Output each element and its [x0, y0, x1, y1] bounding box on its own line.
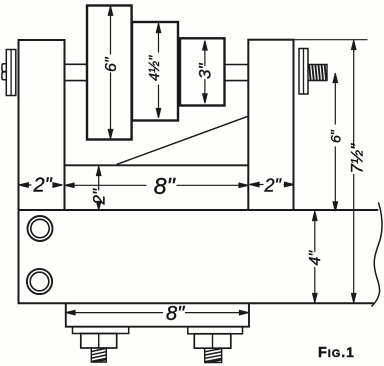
left upright	[19, 40, 65, 210]
dimension 6in disc vertical	[108, 6, 112, 138]
svg-text:2": 2"	[90, 188, 109, 205]
dimension right 6in vertical	[333, 74, 337, 211]
dimension 4.5in disc vertical	[156, 24, 160, 118]
nut N1	[81, 334, 117, 349]
left shaft stub	[65, 63, 88, 65]
svg-text:8": 8"	[166, 303, 185, 325]
svg-text:2": 2"	[33, 175, 53, 197]
svg-text:6": 6"	[327, 129, 343, 143]
dimension 3in disc vertical	[203, 41, 207, 103]
nut N2 facet line	[212, 334, 214, 348]
step disc 4.5in	[132, 22, 178, 121]
svg-text:2": 2"	[264, 176, 283, 196]
stud S2	[205, 348, 222, 362]
clamp screw thread	[308, 65, 327, 81]
nut N2	[194, 334, 231, 348]
washer W2	[188, 327, 243, 334]
base break line (wavy right edge)	[372, 203, 382, 306]
base plate	[19, 210, 378, 303]
dimension middle 8in	[65, 183, 248, 187]
right shaft stub	[225, 64, 249, 66]
bottom clamp plate	[66, 303, 249, 326]
svg-text:8": 8"	[154, 173, 177, 199]
right washer plate inner line	[303, 49, 305, 95]
nut N1 facet line	[98, 334, 100, 349]
top extension line	[294, 39, 368, 41]
svg-text:4": 4"	[307, 250, 324, 266]
hole H1	[28, 216, 53, 241]
thumb nut bumps	[2, 64, 6, 80]
dimension right 2in	[250, 182, 294, 186]
svg-text:6": 6"	[103, 56, 120, 72]
svg-text:3": 3"	[196, 63, 215, 79]
dimension 7.5in vertical	[352, 41, 356, 303]
hole H2	[27, 269, 52, 294]
dimension bed 2in vertical	[97, 167, 101, 210]
step disc 6in	[87, 6, 132, 140]
right washer plate	[299, 49, 308, 95]
diagonal brace	[117, 116, 248, 164]
dimension bottom 8in	[66, 310, 249, 314]
left clamp plate	[6, 50, 16, 96]
left clamp plate inner line	[10, 50, 12, 96]
step disc 3in	[180, 38, 225, 105]
washer W1	[73, 327, 129, 334]
dimension 4in vertical	[313, 212, 317, 303]
dimension left 2in	[19, 183, 62, 187]
right upright	[248, 40, 293, 210]
stud S1	[91, 348, 106, 362]
svg-text:4½": 4½"	[147, 55, 163, 81]
bed top line	[65, 164, 249, 166]
svg-text:7½": 7½"	[347, 143, 366, 174]
